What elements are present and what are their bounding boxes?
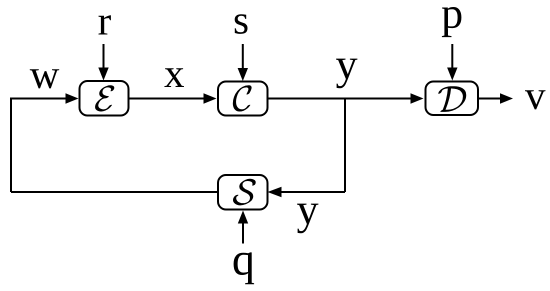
arrowhead q into S bottom bbox=[238, 211, 248, 224]
label p bbox=[442, 7, 462, 37]
block S box bbox=[218, 175, 268, 210]
label x bbox=[164, 68, 184, 87]
wire C to D with junction bbox=[268, 98, 412, 100]
arrowhead into block D bbox=[411, 93, 424, 103]
arrowhead p into D top bbox=[447, 68, 457, 81]
arrowhead into block E bbox=[66, 93, 79, 103]
wire junction vertical drop at y bbox=[344, 99, 346, 193]
wire s input vertical bbox=[242, 44, 244, 69]
wire E to C bbox=[129, 98, 205, 100]
block S script letter bbox=[233, 179, 256, 206]
label y lower near S bbox=[297, 204, 318, 234]
label r bbox=[99, 15, 111, 34]
label q bbox=[234, 252, 255, 284]
wire w-input horizontal into block E bbox=[11, 98, 66, 100]
wire junction to S horizontal bbox=[281, 191, 345, 193]
label v bbox=[525, 90, 546, 109]
label w bbox=[30, 69, 59, 88]
block C box bbox=[218, 82, 268, 116]
wire p input vertical bbox=[451, 44, 453, 68]
block C script letter bbox=[233, 85, 252, 111]
label s bbox=[235, 14, 248, 34]
wire feedback bottom horizontal from S to left bbox=[11, 191, 218, 193]
wire q input vertical bbox=[242, 223, 244, 244]
wire D to v output bbox=[478, 98, 501, 100]
label y upper at junction bbox=[336, 59, 357, 89]
arrowhead into block C bbox=[204, 93, 217, 103]
block D script letter bbox=[438, 86, 466, 112]
arrowhead output v bbox=[500, 93, 513, 103]
wire r input vertical bbox=[103, 44, 105, 68]
arrowhead s into C top bbox=[238, 68, 248, 81]
block E box bbox=[80, 81, 129, 116]
arrowhead r into E top bbox=[98, 68, 108, 81]
wire feedback left vertical bbox=[10, 98, 12, 193]
block E script letter bbox=[95, 85, 114, 111]
block D box bbox=[426, 82, 479, 116]
arrowhead into block S right side bbox=[268, 187, 282, 197]
